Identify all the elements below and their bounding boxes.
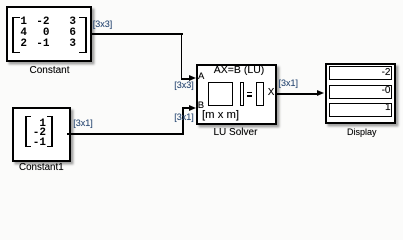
matrix value row3 "-1" [26, 138, 46, 149]
arrowhead into port B [189, 105, 196, 111]
icon narrow rect 2 [256, 82, 264, 107]
Display value -0 [351, 85, 391, 96]
label Display [347, 127, 377, 138]
icon equals sign [247, 92, 252, 93]
wire Constant to LU Solver A: final horizontal into port A [181, 78, 190, 80]
wire Constant1 to LU Solver B: horizontal segment [67, 133, 184, 135]
matrix value row3 col1 "2" [7, 39, 27, 50]
matrix value row1 col1 "1" [7, 17, 27, 28]
port label B [198, 100, 204, 111]
icon narrow rect 1 [240, 82, 244, 107]
matrix value row1 col3 "3" [56, 17, 76, 28]
LU Solver title AX=B (LU) [214, 65, 264, 76]
matrix value row3 col3 "3" [56, 39, 76, 50]
dimension label [3x1] at port B [174, 113, 194, 122]
matrix value row1 "1" [26, 119, 46, 130]
wire LU Solver X to Display [275, 93, 318, 95]
matrix value row2 col2 "0" [30, 28, 50, 39]
matrix right bracket (Constant1) [47, 116, 53, 147]
matrix value row2 col1 "4" [7, 28, 27, 39]
wire Constant1 to LU Solver B: final horizontal into port B [182, 107, 189, 109]
matrix value row1 col2 "-2" [30, 17, 50, 28]
dimension label [3x3] at Constant output [93, 20, 113, 29]
label Constant1 [19, 162, 64, 173]
port label X [268, 87, 275, 98]
matrix right bracket (Constant) [79, 17, 87, 54]
port label A [198, 71, 204, 82]
Display value -2 [351, 67, 391, 78]
label LU Solver [214, 127, 258, 138]
matrix value row2 col3 "6" [56, 28, 76, 39]
wire Constant1 to LU Solver B: vertical segment [182, 107, 184, 133]
LU Solver block [196, 64, 277, 125]
arrowhead into port A [189, 75, 196, 81]
Display row box 2 [329, 85, 392, 99]
Display row box 3 [329, 103, 392, 117]
arrowhead into Display [317, 90, 324, 96]
Display block [325, 63, 397, 124]
Display value 1 [351, 102, 391, 113]
wire Constant to LU Solver A: vertical segment [181, 33, 183, 79]
wire Constant to LU Solver A: horizontal segment [92, 33, 183, 35]
dimension label [3x1] at X output [279, 79, 299, 88]
icon matrix square [208, 82, 234, 107]
constant block Constant [6, 6, 92, 62]
matrix left bracket (Constant) [12, 17, 20, 54]
icon text [m x m] [202, 110, 239, 121]
Display row box 1 [329, 66, 392, 80]
matrix value row3 col2 "-1" [30, 39, 50, 50]
matrix value row2 "-2" [26, 128, 46, 139]
constant block Constant1 [12, 107, 72, 162]
dimension label [3x1] at Constant1 output [73, 119, 93, 128]
matrix left bracket (Constant1) [25, 116, 31, 147]
dimension label [3x3] at port A [174, 81, 194, 90]
label Constant [30, 65, 70, 76]
